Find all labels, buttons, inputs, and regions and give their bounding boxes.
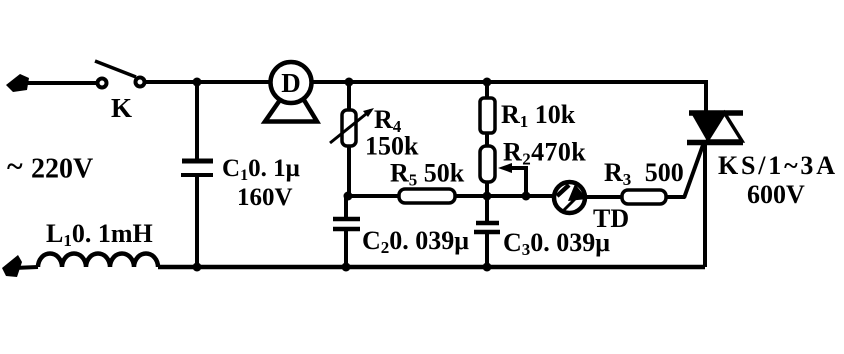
wire terminal to inductor [14, 267, 38, 268]
node junction C3 / bottom rail [483, 263, 492, 272]
capacitor C1 [181, 161, 213, 175]
wire C3 branch [485, 196, 489, 221]
node junction wiper / middle wire [522, 192, 531, 201]
node junction top rail / R4 [345, 78, 354, 87]
resistor R4 (rheostat) [330, 108, 374, 146]
wire C2 branch [344, 196, 348, 217]
resistor R5 [399, 189, 455, 203]
wire C1 branch vertical [195, 82, 199, 159]
svg-text:K: K [111, 93, 132, 123]
potentiometer R2 [480, 146, 495, 182]
motor D [271, 62, 312, 103]
svg-text:R2470k: R2470k [503, 138, 586, 169]
svg-text:TD: TD [593, 204, 629, 233]
wire R2 bottom [485, 182, 489, 196]
svg-text:D: D [281, 68, 301, 98]
resistor R3 [622, 190, 666, 204]
svg-text:C20. 039μ: C20. 039μ [362, 226, 469, 257]
svg-text:220V: 220V [31, 154, 93, 185]
svg-text:R3 500: R3 500 [604, 158, 684, 189]
svg-text:R1 10k: R1 10k [501, 100, 576, 131]
svg-text:600V: 600V [747, 180, 805, 209]
node junction top rail / R1 [483, 78, 492, 87]
resistor R1 [480, 98, 495, 133]
capacitor C2 [333, 219, 360, 229]
inductor L1 [38, 254, 158, 267]
svg-text:L10. 1mH: L10. 1mH [46, 219, 153, 250]
wire middle horizontal [348, 194, 552, 198]
svg-text:KS/1~3A: KS/1~3A [718, 151, 838, 180]
terminal bottom-left [2, 255, 22, 277]
node junction R2 / middle wire [483, 192, 492, 201]
motor D stand [265, 100, 317, 122]
diac TD [554, 182, 587, 213]
node junction top rail / C1 [193, 78, 202, 87]
triac KS [687, 80, 743, 267]
wire R4 top [347, 82, 351, 110]
wire bottom rail [158, 265, 705, 270]
wire R3 to gate [666, 195, 685, 199]
svg-text:~: ~ [7, 150, 23, 183]
capacitor C3 [474, 223, 500, 232]
node junction bottom rail / C1 [193, 263, 202, 272]
R2 wiper arm [498, 163, 526, 196]
wire R1 top [485, 82, 489, 98]
svg-text:C10. 1μ: C10. 1μ [222, 155, 300, 184]
node junction C2 / bottom rail [342, 263, 351, 272]
wire from left terminal to switch [22, 81, 96, 85]
svg-text:150k: 150k [365, 132, 419, 161]
wire R4 bottom [347, 146, 351, 196]
triac gate lead [684, 145, 703, 198]
wire TD to R3 [587, 195, 622, 199]
wire top rail [146, 80, 706, 84]
wire between R1 and R2 [485, 133, 489, 146]
svg-text:R5 50k: R5 50k [390, 159, 465, 190]
node junction R4/R5/C2 [344, 192, 353, 201]
switch K [95, 61, 145, 88]
svg-text:160V: 160V [237, 184, 293, 211]
terminal top-left [6, 74, 29, 92]
